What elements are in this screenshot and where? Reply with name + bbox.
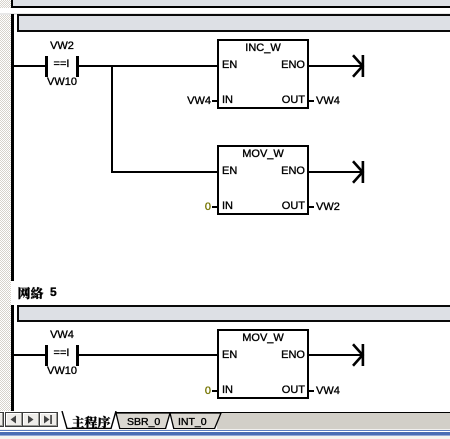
network comment box (top pane, partial) <box>11 0 450 8</box>
IN pin tick (MOV_W net5) <box>212 390 217 392</box>
wire INC_W ENO to arrow <box>309 65 362 67</box>
compare contact C1 top operand VW2 <box>31 41 93 52</box>
inactive tab label INT_0 <box>178 417 207 428</box>
network 4 comment box <box>17 14 450 32</box>
network 5 comment box <box>17 305 450 322</box>
left power rail (network 4) <box>11 14 14 281</box>
tab nav button prev <box>5 412 23 427</box>
MOV_W (network 4) pin OUT <box>261 201 305 212</box>
operand VW4 at MOV_W net5 OUT <box>316 386 340 397</box>
tab bar background <box>0 411 450 430</box>
INC_W pin ENO <box>261 60 305 71</box>
wire MOV_W net5 ENO to arrow <box>309 354 362 356</box>
inactive tab label SBR_0 <box>127 417 160 428</box>
OUT pin tick (MOV_W net4) <box>309 206 314 208</box>
compare contact C2 contact left bar <box>45 345 48 366</box>
operand VW4 at INC_W IN <box>164 96 211 107</box>
MOV_W (network 5) function box <box>217 329 309 399</box>
MOV_W (network 5) title <box>217 333 309 344</box>
MOV_W (network 5) pin ENO <box>261 350 305 361</box>
INC_W title <box>217 43 309 54</box>
tab bar top line <box>116 412 450 414</box>
INC_W pin EN <box>222 60 237 71</box>
wire MOV_W ENO to arrow <box>309 171 362 173</box>
compare contact C2 contact right bar <box>76 345 79 366</box>
network 4 rung 1 rung continuation arrow <box>348 54 366 78</box>
compare contact C1 contact operator ==I <box>47 59 76 70</box>
MOV_W (network 5) pin OUT <box>261 385 305 396</box>
active tab label 主程序 <box>0 0 130 432</box>
INC_W pin OUT <box>261 95 305 106</box>
left power rail (network 5) <box>11 305 14 411</box>
inactive tab SBR_0 <box>115 413 171 430</box>
OUT pin tick (INC_W) <box>309 100 314 102</box>
compare contact C2 top operand VW4 <box>31 330 93 341</box>
tab nav button first <box>0 412 4 427</box>
MOV_W (network 4) pin IN <box>222 201 233 212</box>
branch junction drop wire <box>111 65 113 173</box>
compare contact C1 contact left bar <box>45 56 48 77</box>
compare contact C2 contact operator ==I <box>47 348 76 359</box>
network 5 title <box>0 0 70 310</box>
MOV_W (network 4) function box <box>217 145 309 215</box>
wire rail to contact C1 <box>13 65 46 67</box>
compare contact C1 bottom operand VW10 <box>31 77 93 88</box>
inactive tab INT_0 <box>169 413 222 430</box>
operand VW2 at MOV_W OUT <box>316 202 340 213</box>
INC_W function box <box>217 39 309 109</box>
compare contact C2 bottom operand VW10 <box>31 366 93 377</box>
bottom scrollbar stripes <box>0 429 450 439</box>
network 4 branch rung continuation arrow <box>348 160 366 184</box>
wire rail to contact C2 <box>13 354 46 356</box>
operand 0 at MOV_W net5 IN <box>164 386 211 397</box>
MOV_W (network 4) pin ENO <box>261 166 305 177</box>
tab nav button next <box>22 412 40 427</box>
wire contact C1 to INC_W EN <box>78 65 217 67</box>
MOV_W (network 4) pin EN <box>222 166 237 177</box>
wire contact C2 to MOV_W EN <box>78 354 217 356</box>
tab bar filler strip <box>217 413 450 429</box>
MOV_W (network 5) pin EN <box>222 350 237 361</box>
editor left margin hatch (upper) <box>0 0 11 8</box>
editor left margin hatch (main) <box>0 15 11 411</box>
splitter band <box>0 8 450 15</box>
IN pin tick (INC_W) <box>212 100 217 102</box>
compare contact C1 contact right bar <box>76 56 79 77</box>
operand 0 at MOV_W IN <box>164 202 211 213</box>
MOV_W (network 4) title <box>217 149 309 160</box>
IN pin tick (MOV_W net4) <box>212 206 217 208</box>
active tab 主程序 (main program) <box>58 411 120 430</box>
MOV_W (network 5) pin IN <box>222 385 233 396</box>
branch wire to MOV_W EN <box>113 171 217 173</box>
OUT pin tick (MOV_W net5) <box>309 390 314 392</box>
network 5 number <box>50 287 57 298</box>
splitter band lower shade <box>0 13 450 15</box>
operand VW4 at INC_W OUT <box>316 96 340 107</box>
tab nav button last <box>39 412 58 427</box>
network 5 rung rung continuation arrow <box>348 343 366 367</box>
INC_W pin IN <box>222 95 233 106</box>
